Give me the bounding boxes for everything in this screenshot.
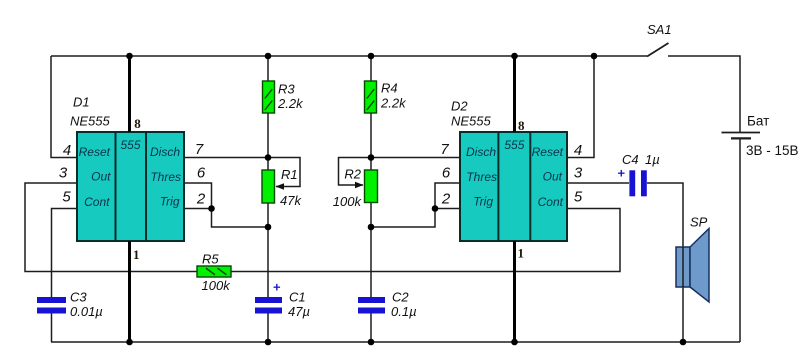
wire D1 pin7 Disch to node A [184, 157, 268, 159]
wire C4 to speaker and ground rail [647, 183, 683, 342]
svg-text:Out: Out [91, 170, 111, 184]
wire C2 bottom lead [370, 314, 372, 343]
wire bottom ground rail [51, 341, 740, 343]
IC D1 NE555 [70, 95, 184, 242]
speaker SP [676, 215, 709, 303]
svg-text:7: 7 [195, 141, 204, 158]
wire top rail right of switch to battery [668, 56, 740, 132]
wire D2 pin6 Thres [435, 183, 460, 209]
svg-text:555: 555 [120, 138, 140, 152]
svg-text:Trig: Trig [473, 195, 493, 209]
svg-text:555: 555 [504, 138, 524, 152]
wire R1 wiper loop [268, 158, 300, 187]
wire R2 top lead [370, 158, 372, 171]
svg-text:D2: D2 [451, 99, 468, 114]
wire C1 top lead [267, 227, 269, 297]
wire C1 bottom lead [267, 314, 269, 343]
svg-text:6: 6 [442, 165, 451, 182]
node D1 pin8 on top rail [126, 53, 133, 60]
svg-text:R2: R2 [344, 167, 361, 182]
svg-text:3В - 15В: 3В - 15В [746, 143, 799, 158]
wire D1 pin6 Thres [184, 183, 212, 209]
node D1 pin2/pin6 junction [208, 205, 215, 212]
svg-text:R1: R1 [281, 167, 298, 182]
svg-text:4: 4 [574, 142, 582, 159]
wire R1 bottom lead [267, 203, 269, 227]
svg-text:Cont: Cont [84, 195, 110, 209]
resistor R3 2.2k [263, 81, 305, 113]
D2 pin 8 wire [515, 56, 526, 133]
wire D1 pin3 Out down to R5 [25, 183, 197, 272]
svg-text:D1: D1 [73, 95, 90, 110]
svg-text:8: 8 [134, 116, 141, 131]
wire battery minus to bottom rail [739, 140, 741, 343]
node R3 on top rail [265, 53, 272, 60]
node D1 pin1 on ground rail [126, 339, 133, 346]
svg-text:R3: R3 [278, 82, 295, 97]
svg-text:C2: C2 [392, 290, 409, 305]
svg-text:8: 8 [518, 118, 525, 133]
wire D2 pin2 node down to C2 [371, 209, 435, 228]
node D2 pin4 on top rail [591, 53, 598, 60]
resistor R4 2.2k [365, 81, 408, 114]
capacitor C2 0.1µ [358, 290, 417, 320]
wire R4 bottom lead [370, 113, 372, 158]
switch SA1 [647, 22, 672, 57]
node D2 pin8 on top rail [511, 53, 518, 60]
svg-text:Reset: Reset [79, 145, 111, 159]
svg-text:3: 3 [574, 165, 583, 182]
svg-text:1: 1 [133, 247, 140, 262]
wire D1 pin4 Reset to top rail [51, 56, 77, 158]
wire R3 bottom lead [267, 113, 269, 158]
svg-text:2: 2 [441, 191, 451, 208]
svg-text:1: 1 [518, 246, 525, 261]
svg-text:2.2k: 2.2k [380, 96, 407, 111]
svg-text:R5: R5 [202, 252, 219, 267]
svg-text:+: + [273, 280, 281, 295]
node D2 pin2/pin6 junction [432, 205, 439, 212]
svg-text:Thres: Thres [466, 170, 497, 184]
wire R4 top lead [370, 56, 372, 81]
wire C2 top lead [370, 227, 372, 297]
svg-text:5: 5 [574, 189, 583, 206]
D1 pin 1 wire [130, 241, 140, 342]
wire R2 wiper loop [339, 158, 372, 186]
svg-text:R4: R4 [381, 81, 398, 96]
node speaker on ground rail [680, 339, 687, 346]
svg-text:SP: SP [690, 215, 708, 230]
svg-text:SA1: SA1 [647, 22, 672, 37]
svg-text:Disch: Disch [150, 145, 180, 159]
capacitor C1 47µ (polarized) [255, 280, 310, 320]
svg-text:Out: Out [543, 170, 563, 184]
svg-text:1µ: 1µ [645, 152, 660, 167]
svg-text:4: 4 [63, 142, 71, 159]
svg-text:NE555: NE555 [451, 114, 492, 129]
wire D2 pin3 Out to C4 [567, 182, 629, 184]
wire R2 bottom lead [370, 203, 372, 228]
svg-text:3: 3 [59, 165, 68, 182]
D2 pin 1 wire [515, 241, 525, 342]
IC D2 NE555 [451, 99, 567, 242]
wire D1 pin2 node down to C1 [212, 209, 269, 228]
node C1 on ground rail [265, 339, 272, 346]
resistor R5 100k [197, 252, 231, 294]
svg-text:7: 7 [440, 141, 449, 158]
svg-text:NE555: NE555 [70, 114, 111, 129]
wire D1 pin2 Trig [184, 208, 212, 210]
svg-text:Thres: Thres [150, 170, 181, 184]
node R2 bottom / C2 [368, 224, 375, 231]
svg-text:100k: 100k [202, 278, 232, 293]
D1 pin 8 wire [130, 56, 142, 132]
node C2 on ground rail [368, 339, 375, 346]
wire D2 pin7 Disch to node B [371, 157, 460, 159]
node D2 pin1 on ground rail [511, 339, 518, 346]
battery Бат 3В - 15В [722, 114, 799, 159]
wire D1 pin5 Cont to C3 [52, 209, 78, 298]
svg-text:2: 2 [196, 191, 206, 208]
capacitor C3 0.01µ [37, 290, 103, 320]
svg-text:0.01µ: 0.01µ [70, 304, 103, 319]
capacitor C4 1µ (polarized) [618, 152, 660, 196]
wire D2 pin2 Trig [435, 208, 460, 210]
svg-text:47k: 47k [280, 193, 302, 208]
D2 pin number labels [440, 141, 583, 208]
svg-text:100k: 100k [333, 194, 363, 209]
wire top rail left of switch [51, 55, 647, 57]
wire C3 bottom to ground rail [51, 314, 53, 343]
wire R5 to D2 pin5 Cont [231, 209, 620, 272]
svg-text:0.1µ: 0.1µ [391, 304, 417, 319]
node R4 on top rail [368, 53, 375, 60]
svg-text:Trig: Trig [160, 195, 180, 209]
wire R1 top lead [267, 158, 269, 171]
svg-text:C1: C1 [289, 290, 306, 305]
potentiometer R1 47k [262, 167, 302, 208]
svg-text:Бат: Бат [747, 114, 769, 129]
svg-text:5: 5 [62, 189, 71, 206]
svg-text:+: + [618, 166, 626, 181]
potentiometer R2 100k [333, 167, 378, 210]
svg-text:47µ: 47µ [288, 304, 310, 319]
node R1 bottom / C1 [265, 224, 272, 231]
wire R3 top lead [267, 56, 269, 81]
D1 pin number labels [59, 141, 206, 208]
svg-text:Reset: Reset [532, 145, 564, 159]
svg-text:C4: C4 [622, 152, 639, 167]
svg-text:6: 6 [197, 165, 206, 182]
svg-text:2.2k: 2.2k [277, 96, 304, 111]
svg-text:C3: C3 [70, 290, 87, 305]
wire D2 pin4 Reset to top rail [567, 56, 594, 158]
node A: R3/R1/D1 pin7 [265, 154, 272, 161]
svg-text:Disch: Disch [466, 145, 496, 159]
node B: R4/R2/D2 pin7 [368, 154, 375, 161]
svg-text:Cont: Cont [538, 195, 564, 209]
